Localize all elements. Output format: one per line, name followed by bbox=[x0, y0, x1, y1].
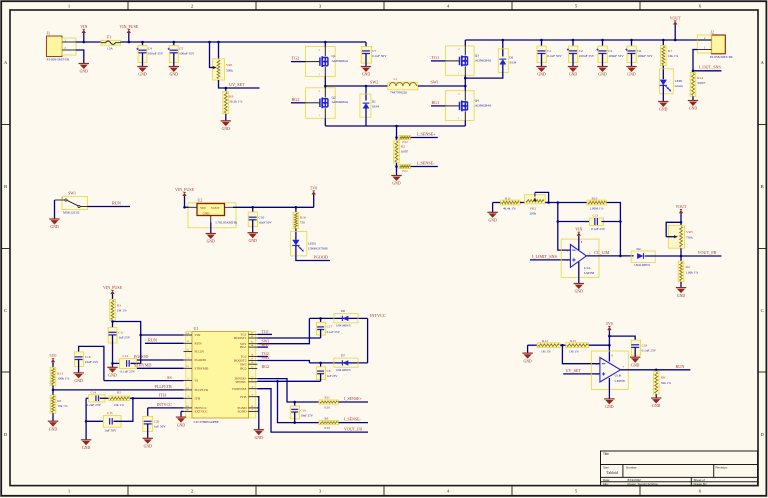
svg-text:I_SENSE+: I_SENSE+ bbox=[344, 396, 363, 401]
svg-text:GND: GND bbox=[605, 405, 613, 409]
svg-text:R6: R6 bbox=[57, 399, 61, 403]
capacitor C10 bbox=[252, 207, 254, 217]
svg-text:0.007: 0.007 bbox=[401, 150, 409, 154]
svg-text:C4: C4 bbox=[148, 47, 152, 51]
svg-text:SS34: SS34 bbox=[509, 61, 516, 65]
svg-text:GND: GND bbox=[144, 445, 152, 449]
svg-text:J1: J1 bbox=[47, 31, 51, 36]
wire VOUT_FB node bbox=[680, 248, 682, 256]
svg-text:VIN: VIN bbox=[80, 24, 87, 29]
svg-text:C16: C16 bbox=[301, 408, 307, 412]
wire bridge bottom rail bbox=[325, 125, 465, 127]
wire 5V rail bbox=[233, 206, 314, 208]
svg-text:100uF 35V: 100uF 35V bbox=[179, 52, 195, 56]
power port 5V0 bbox=[52, 362, 54, 367]
wire SS pin bbox=[104, 380, 184, 382]
svg-text:C20: C20 bbox=[154, 419, 160, 423]
capacitor C6 bbox=[631, 40, 633, 51]
diode D1 bbox=[365, 86, 367, 101]
ground bbox=[651, 397, 661, 399]
svg-text:TG1: TG1 bbox=[262, 329, 269, 334]
wire VOUT rail bbox=[465, 39, 711, 41]
wire SW1 pin bbox=[257, 318, 309, 343]
wire switch to ground bbox=[54, 200, 56, 219]
resistor R16 bbox=[295, 207, 297, 212]
svg-text:R5: R5 bbox=[117, 391, 121, 395]
svg-text:GND: GND bbox=[207, 240, 215, 244]
IC U1 LTC3780 bbox=[186, 332, 192, 419]
wire boost2 node bbox=[309, 362, 367, 364]
svg-text:UV_SET: UV_SET bbox=[566, 368, 582, 373]
transistor Q3 bbox=[445, 46, 474, 75]
svg-text:Q2: Q2 bbox=[332, 96, 336, 100]
svg-text:PLLIN: PLLIN bbox=[195, 350, 205, 354]
power port VIN_FUSE bbox=[184, 196, 186, 207]
wire VIN pin bbox=[141, 334, 184, 336]
resistor R4 bbox=[680, 256, 682, 261]
capacitor C4 bbox=[142, 42, 144, 51]
wire inverting input bbox=[558, 203, 571, 251]
transistor Q4 bbox=[445, 91, 474, 121]
svg-text:Title: Title bbox=[603, 452, 609, 456]
wire shunt top branch bbox=[396, 126, 398, 140]
svg-text:INTVCC: INTVCC bbox=[157, 402, 173, 407]
power port VIN bbox=[578, 236, 580, 250]
svg-text:R16: R16 bbox=[300, 215, 306, 219]
svg-text:C7: C7 bbox=[372, 49, 376, 53]
connector J2 bbox=[712, 35, 726, 54]
svg-text:0.1uF 25V: 0.1uF 25V bbox=[642, 349, 657, 353]
svg-text:I_SENSE+: I_SENSE+ bbox=[417, 132, 436, 137]
svg-text:SGND: SGND bbox=[238, 410, 248, 414]
wire RUN output bbox=[621, 369, 691, 371]
svg-text:RUN: RUN bbox=[148, 338, 157, 343]
resistor R6 bbox=[50, 395, 56, 413]
potentiometer VR3 bbox=[668, 225, 684, 248]
ground bbox=[143, 437, 153, 439]
svg-text:STBYMD: STBYMD bbox=[195, 366, 209, 370]
svg-text:L1: L1 bbox=[394, 77, 398, 81]
svg-text:PJ-058-SMT-TR: PJ-058-SMT-TR bbox=[710, 55, 733, 59]
power port VIN_FUSE bbox=[112, 294, 114, 299]
svg-text:GND: GND bbox=[222, 127, 230, 131]
svg-text:Q1: Q1 bbox=[332, 54, 336, 58]
svg-text:VIN_FUSE: VIN_FUSE bbox=[175, 187, 194, 192]
svg-text:C19: C19 bbox=[642, 343, 648, 347]
op-amp U1B bbox=[591, 351, 628, 389]
svg-text:LED1: LED1 bbox=[675, 79, 683, 83]
capacitor C5 bbox=[173, 42, 175, 51]
wire opamp fb node bbox=[545, 202, 587, 204]
svg-text:I_OUT_SNS: I_OUT_SNS bbox=[699, 64, 722, 69]
ground bbox=[206, 233, 216, 235]
ground bbox=[626, 66, 636, 68]
svg-text:2512: 2512 bbox=[402, 170, 408, 173]
svg-text:R8: R8 bbox=[661, 376, 665, 380]
op-amp U1A bbox=[561, 239, 599, 277]
svg-text:22nF 25V: 22nF 25V bbox=[85, 360, 99, 364]
svg-text:GND: GND bbox=[362, 73, 370, 77]
svg-text:LED2: LED2 bbox=[308, 241, 316, 245]
svg-text:GND: GND bbox=[689, 107, 697, 111]
wire BG1 pin bbox=[257, 346, 268, 348]
svg-text:C18: C18 bbox=[85, 355, 91, 359]
capacitor C3 bbox=[602, 40, 604, 51]
ground bbox=[254, 429, 264, 431]
svg-text:C11: C11 bbox=[118, 330, 124, 334]
wire BOOST1 pin bbox=[257, 337, 320, 339]
svg-text:Size:: Size: bbox=[603, 466, 610, 470]
svg-text:5V0: 5V0 bbox=[310, 185, 317, 190]
svg-text:RUN: RUN bbox=[676, 364, 685, 369]
ground bbox=[48, 420, 58, 422]
wire VOSENSE route bbox=[257, 389, 368, 432]
inductor L1 bbox=[388, 82, 418, 90]
svg-text:R4: R4 bbox=[686, 265, 690, 269]
ground bbox=[169, 66, 179, 68]
ground bbox=[688, 100, 698, 102]
wire opamp vee bbox=[578, 262, 580, 284]
fuse F1 bbox=[101, 40, 121, 45]
svg-text:C3: C3 bbox=[608, 49, 612, 53]
svg-text:10uF 50V: 10uF 50V bbox=[259, 220, 273, 224]
svg-text:Number:: Number: bbox=[626, 466, 638, 470]
svg-text:C2: C2 bbox=[579, 49, 583, 53]
svg-text:VIN_FUSE: VIN_FUSE bbox=[119, 24, 138, 29]
wire TG1 pin bbox=[257, 333, 272, 335]
svg-text:GND: GND bbox=[80, 70, 88, 74]
svg-text:GND: GND bbox=[569, 73, 577, 77]
svg-text:GND: GND bbox=[631, 363, 639, 367]
capacitor C19 bbox=[609, 336, 635, 345]
svg-text:R15: R15 bbox=[570, 339, 576, 343]
svg-text:R3: R3 bbox=[117, 303, 121, 307]
ground bbox=[107, 366, 117, 368]
svg-text:10nF 25V: 10nF 25V bbox=[301, 413, 314, 417]
svg-text:15A: 15A bbox=[107, 47, 113, 51]
resistor R8 bbox=[655, 370, 657, 371]
wire VIN_FUSE rail bbox=[121, 41, 367, 43]
svg-text:J2: J2 bbox=[711, 29, 715, 34]
resistor R2 shunt bbox=[394, 140, 400, 163]
svg-text:7447709220: 7447709220 bbox=[390, 90, 407, 94]
svg-text:GND: GND bbox=[659, 108, 667, 112]
wire TG2 pin bbox=[257, 356, 268, 358]
svg-text:GND: GND bbox=[523, 359, 531, 363]
svg-text:SS: SS bbox=[195, 379, 199, 383]
transistor Q2 bbox=[305, 88, 335, 119]
power port 5V0 bbox=[608, 330, 610, 356]
svg-text:D2: D2 bbox=[509, 56, 513, 60]
svg-text:GND: GND bbox=[82, 446, 90, 450]
svg-text:R10: R10 bbox=[592, 196, 598, 200]
svg-text:VOSENSE: VOSENSE bbox=[232, 387, 247, 391]
svg-text:0.01: 0.01 bbox=[325, 405, 331, 409]
svg-text:LTC3780EG#PBF: LTC3780EG#PBF bbox=[194, 420, 219, 424]
svg-text:PGOOD: PGOOD bbox=[134, 354, 148, 359]
svg-text:100uF 35V: 100uF 35V bbox=[637, 54, 653, 58]
transistor Q1 bbox=[305, 47, 335, 77]
svg-text:1N4148WS: 1N4148WS bbox=[336, 368, 351, 372]
svg-text:SW1: SW1 bbox=[431, 79, 439, 84]
svg-text:PGOOD: PGOOD bbox=[314, 255, 328, 260]
wire RUN pin bbox=[145, 342, 184, 344]
connector J1 bbox=[47, 36, 63, 57]
svg-text:2512: 2512 bbox=[402, 141, 408, 144]
svg-text:I_SENSE-: I_SENSE- bbox=[344, 417, 362, 422]
svg-text:VOUT: VOUT bbox=[670, 15, 682, 20]
ground bbox=[221, 120, 231, 122]
svg-text:GND: GND bbox=[170, 73, 178, 77]
svg-text:C: C bbox=[761, 308, 764, 313]
svg-text:R11: R11 bbox=[505, 196, 511, 200]
svg-text:PLLFLTR: PLLFLTR bbox=[155, 384, 173, 389]
diode D7 bbox=[334, 358, 358, 367]
power port VIN bbox=[83, 33, 85, 42]
svg-text:100k 1%: 100k 1% bbox=[57, 376, 69, 380]
svg-text:1uF 25V: 1uF 25V bbox=[327, 374, 339, 378]
svg-text:PLLFLTR: PLLFLTR bbox=[195, 388, 209, 392]
ground bbox=[79, 63, 90, 65]
svg-text:SJ007: SJ007 bbox=[697, 81, 705, 85]
svg-text:CC_LIM: CC_LIM bbox=[594, 250, 610, 255]
svg-text:1nF 50V: 1nF 50V bbox=[105, 429, 118, 433]
svg-text:VR1: VR1 bbox=[226, 63, 233, 67]
svg-text:VOUT_FB: VOUT_FB bbox=[698, 250, 717, 255]
svg-text:LM358: LM358 bbox=[584, 271, 594, 275]
led LED1 bbox=[660, 69, 674, 94]
svg-text:GND: GND bbox=[74, 379, 82, 383]
svg-text:C13: C13 bbox=[593, 213, 599, 217]
ground bbox=[73, 372, 83, 374]
svg-text:1M 1%: 1M 1% bbox=[117, 309, 127, 313]
ground bbox=[176, 416, 186, 418]
svg-text:UV_SET: UV_SET bbox=[229, 82, 245, 87]
svg-text:GND: GND bbox=[392, 182, 400, 186]
switch SW2 run bbox=[62, 197, 88, 210]
svg-text:BG2: BG2 bbox=[240, 367, 247, 371]
resistor R3 bbox=[110, 299, 116, 320]
svg-text:STBYMD: STBYMD bbox=[134, 363, 151, 368]
svg-text:GND: GND bbox=[255, 436, 263, 440]
wire VIN filter node bbox=[112, 321, 114, 328]
svg-text:13k 1%: 13k 1% bbox=[57, 404, 68, 408]
svg-text:VR2: VR2 bbox=[530, 207, 537, 211]
svg-text:200k: 200k bbox=[530, 212, 537, 216]
svg-text:BG1: BG1 bbox=[432, 100, 440, 105]
svg-text:VIN: VIN bbox=[195, 333, 201, 337]
svg-text:MSK12C02: MSK12C02 bbox=[63, 211, 80, 215]
wire boost1 node bbox=[309, 317, 367, 319]
wire BOOST2 pin bbox=[257, 361, 309, 363]
resistor R5 bbox=[109, 396, 130, 401]
svg-text:Revision:: Revision: bbox=[716, 466, 729, 470]
svg-text:I_SENSE-: I_SENSE- bbox=[417, 161, 435, 166]
wire inverting input bbox=[562, 345, 600, 364]
svg-text:BG2: BG2 bbox=[262, 364, 270, 369]
svg-text:1uF 25V: 1uF 25V bbox=[118, 335, 131, 339]
ground bbox=[361, 66, 371, 68]
resistor R9b sense bbox=[319, 421, 339, 425]
ground bbox=[676, 287, 686, 289]
svg-text:100uF 35V: 100uF 35V bbox=[608, 54, 624, 58]
power port VOUT bbox=[680, 213, 682, 225]
svg-text:1M 1%: 1M 1% bbox=[569, 349, 579, 353]
svg-text:VOUT: VOUT bbox=[211, 206, 220, 210]
svg-text:C: C bbox=[4, 308, 7, 313]
wire INTVCC bus bbox=[367, 318, 369, 363]
svg-text:GND: GND bbox=[652, 404, 660, 408]
power port VIN_FUSE bbox=[128, 33, 130, 42]
svg-text:1uF 50V: 1uF 50V bbox=[154, 425, 167, 429]
svg-text:BG1: BG1 bbox=[262, 342, 270, 347]
svg-text:C6: C6 bbox=[637, 49, 641, 53]
svg-text:D1: D1 bbox=[372, 100, 376, 104]
svg-text:Drawn By:: Drawn By: bbox=[694, 482, 708, 486]
svg-text:R9: R9 bbox=[229, 95, 233, 99]
svg-text:R7: R7 bbox=[668, 49, 672, 53]
wire STBYMD pin bbox=[137, 367, 184, 369]
svg-text:I_LIMIT_SNS: I_LIMIT_SNS bbox=[532, 254, 558, 259]
svg-text:LM358: LM358 bbox=[615, 379, 625, 383]
ground bbox=[248, 232, 258, 234]
svg-text:ITH: ITH bbox=[195, 396, 201, 400]
svg-text:SW2: SW2 bbox=[240, 362, 247, 366]
svg-text:150060GS75000: 150060GS75000 bbox=[308, 246, 328, 250]
regulator U2 L78L05 bbox=[188, 203, 236, 228]
svg-text:C17: C17 bbox=[327, 325, 333, 329]
svg-text:B: B bbox=[761, 184, 764, 189]
svg-text:GND: GND bbox=[50, 225, 58, 229]
svg-text:AON6284A: AON6284A bbox=[332, 100, 349, 104]
potentiometer VR1 bbox=[218, 42, 220, 59]
svg-text:1N4148WS: 1N4148WS bbox=[336, 323, 351, 327]
wire shunt bottom branch bbox=[396, 163, 398, 176]
svg-text:1.00k 1%: 1.00k 1% bbox=[686, 270, 699, 274]
svg-text:GND: GND bbox=[177, 423, 185, 427]
svg-text:BG1: BG1 bbox=[240, 345, 247, 349]
svg-text:B: B bbox=[4, 184, 7, 189]
wire UV_SET input bbox=[563, 373, 600, 375]
svg-text:0.1uF 50V: 0.1uF 50V bbox=[372, 54, 387, 58]
svg-text:VIN_FUSE: VIN_FUSE bbox=[103, 285, 122, 290]
svg-text:AON6284A: AON6284A bbox=[332, 59, 349, 63]
svg-text:VR3: VR3 bbox=[686, 230, 693, 234]
wire opamp vee bbox=[608, 378, 610, 399]
capacitor C7 bbox=[365, 42, 367, 51]
wire opamp output CC_LIM bbox=[586, 255, 633, 257]
ground bbox=[391, 175, 401, 177]
wire SENSE- route bbox=[278, 381, 320, 422]
title block bbox=[601, 451, 758, 486]
wire J2 pin1 to sense bbox=[693, 50, 722, 71]
svg-text:PJ-058-SMT-TR: PJ-058-SMT-TR bbox=[47, 57, 70, 61]
wire comp to ground bbox=[85, 398, 87, 440]
capacitor C2 bbox=[572, 40, 574, 51]
svg-text:SW1: SW1 bbox=[68, 190, 76, 195]
svg-text:AON6284A: AON6284A bbox=[475, 103, 492, 107]
svg-text:GND: GND bbox=[575, 290, 583, 294]
svg-text:GND: GND bbox=[598, 73, 606, 77]
resistor R12 bbox=[528, 344, 538, 346]
svg-text:Tabloid: Tabloid bbox=[607, 471, 619, 475]
ground bbox=[658, 101, 668, 103]
led LED2 bbox=[291, 232, 307, 256]
capacitor C16 bbox=[294, 402, 296, 409]
svg-text:SW2: SW2 bbox=[262, 355, 270, 360]
ground bbox=[574, 283, 584, 285]
capacitor C13 bbox=[558, 221, 591, 223]
wire SW2 node bbox=[325, 85, 388, 87]
svg-text:GND: GND bbox=[203, 211, 210, 215]
svg-text:TG1: TG1 bbox=[432, 55, 440, 60]
svg-text:15k 1%: 15k 1% bbox=[114, 403, 125, 407]
wire PLLFLTR pin bbox=[53, 389, 184, 391]
ground bbox=[630, 356, 640, 358]
svg-text:2.2nF 25V: 2.2nF 25V bbox=[87, 403, 102, 407]
wire FCB and ground pins bbox=[257, 397, 259, 430]
capacitor C14 comp bbox=[86, 397, 93, 399]
svg-text:PGOOD: PGOOD bbox=[195, 358, 207, 362]
wire RUN net from switch bbox=[88, 206, 131, 208]
svg-text:U1A: U1A bbox=[584, 266, 591, 270]
svg-text:GND: GND bbox=[249, 239, 257, 243]
svg-text:R2: R2 bbox=[401, 145, 405, 149]
capacitor C12 bbox=[113, 362, 125, 364]
svg-text:VOUT_FB: VOUT_FB bbox=[344, 426, 362, 431]
svg-text:F1: F1 bbox=[107, 35, 111, 40]
wire INTVCC pin bbox=[148, 407, 184, 409]
svg-text:L78L05AB(TR): L78L05AB(TR) bbox=[216, 220, 238, 224]
svg-text:File:: File: bbox=[603, 482, 609, 486]
svg-text:ITH: ITH bbox=[159, 393, 166, 398]
resistor R11 bbox=[493, 202, 501, 204]
svg-text:C12: C12 bbox=[123, 354, 129, 358]
resistor R13 bbox=[50, 367, 56, 385]
svg-text:R14: R14 bbox=[697, 76, 703, 80]
svg-text:BG2: BG2 bbox=[292, 97, 300, 102]
svg-text:5V0: 5V0 bbox=[606, 321, 613, 326]
svg-text:100uF 35V: 100uF 35V bbox=[579, 54, 595, 58]
svg-text:750: 750 bbox=[300, 221, 305, 225]
wire U2 ground bbox=[210, 223, 212, 234]
svg-text:0.01: 0.01 bbox=[325, 426, 331, 430]
wire opamp vcc bbox=[608, 357, 610, 362]
diode D2 bbox=[502, 40, 504, 57]
power port 5V0 bbox=[313, 195, 315, 208]
svg-text:D4: D4 bbox=[637, 247, 641, 251]
svg-text:0.1uF 25V: 0.1uF 25V bbox=[591, 227, 606, 231]
svg-text:U2: U2 bbox=[198, 198, 203, 203]
svg-text:500k: 500k bbox=[226, 68, 233, 72]
svg-text:0.1uF 25V: 0.1uF 25V bbox=[327, 330, 341, 334]
svg-text:R13: R13 bbox=[57, 371, 63, 375]
svg-text:R9: R9 bbox=[325, 416, 329, 420]
ground bbox=[527, 345, 529, 353]
wire J1 pin2 to ground bbox=[76, 50, 84, 64]
wire UV_SET net bbox=[219, 80, 260, 88]
wire I_LIMIT_SNS input bbox=[530, 259, 570, 261]
ground bbox=[604, 398, 614, 400]
wire PGOOD pin bbox=[137, 359, 184, 361]
svg-text:Power_Supply.SchDoc: Power_Supply.SchDoc bbox=[628, 482, 659, 486]
diode D6 bbox=[334, 314, 358, 323]
svg-text:0.1uF 50V: 0.1uF 50V bbox=[547, 54, 562, 58]
wire R10 to out node bbox=[607, 203, 621, 256]
svg-text:C8: C8 bbox=[327, 369, 331, 373]
potentiometer VR2 bbox=[525, 195, 546, 204]
svg-text:10k 1%: 10k 1% bbox=[668, 54, 678, 58]
